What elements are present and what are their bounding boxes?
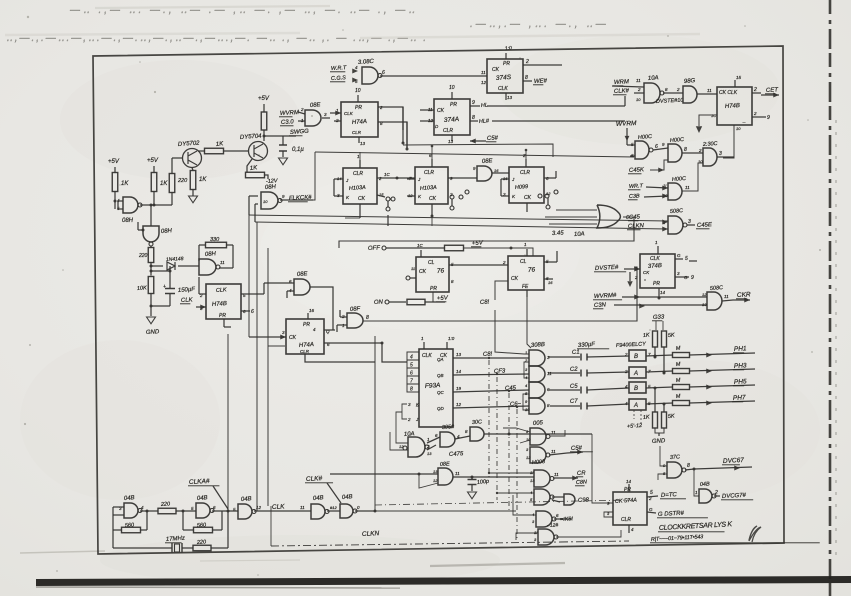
wire 005 out loop	[550, 430, 565, 436]
svg-text:04B: 04B	[313, 495, 324, 502]
svg-text:WVRM: WVRM	[280, 110, 299, 117]
wire CR out	[553, 477, 566, 479]
svg-text:G: G	[677, 253, 681, 258]
svg-text:CK: CK	[524, 195, 532, 201]
margin specks	[27, 16, 29, 18]
pull circles below H103A1	[386, 197, 390, 201]
wire H103A1 left stub	[334, 178, 343, 180]
wire 374A CLR bottom + C5# label	[451, 135, 453, 141]
wire base DY5702	[172, 157, 183, 159]
pin 15 tick above H74B2	[734, 80, 736, 87]
wire 374S out WE#	[523, 80, 532, 82]
svg-text:5: 5	[650, 490, 653, 496]
wire H00C4 out up to 2-30C	[682, 163, 703, 191]
svg-text:F93A: F93A	[425, 382, 441, 390]
pin16 tick above H74A2	[307, 313, 309, 319]
wire QC out	[453, 390, 529, 392]
nand gate 08E (catch)	[438, 468, 453, 485]
wire 37C out to DVC67	[685, 469, 694, 470]
flip-flop H103A box 1	[343, 168, 377, 204]
wire H00C1 out	[653, 148, 668, 150]
svg-text:C8N: C8N	[576, 479, 587, 486]
svg-text:C45K: C45K	[629, 167, 645, 174]
svg-text:CK: CK	[437, 108, 445, 114]
svg-text:220: 220	[160, 501, 172, 508]
wire 08E3 out long right	[453, 476, 534, 478]
resistor 560 osc2	[194, 527, 213, 533]
svg-text:08E: 08E	[482, 158, 494, 165]
long mid bus wire B (to CLKN)	[255, 222, 668, 229]
svg-text:12: 12	[481, 80, 487, 85]
svg-text:2: 2	[676, 87, 680, 92]
svg-text:CLKN: CLKN	[362, 530, 380, 538]
wire 08E out to H099	[492, 172, 509, 174]
svg-text:11: 11	[551, 449, 556, 454]
wire H008 out to C5#	[549, 453, 567, 455]
nand gate 37C	[667, 462, 682, 478]
and gate 308B 4	[529, 398, 545, 414]
wire -12 gate out to 574A clr	[556, 530, 621, 537]
pin tick above 76-2	[526, 249, 528, 256]
wire WVRM to gate	[298, 112, 305, 114]
svg-text:3.08C: 3.08C	[358, 59, 375, 66]
wire arrow ph2	[690, 369, 756, 371]
svg-text:98G: 98G	[684, 78, 696, 85]
down arrow at 374B pin2	[644, 279, 646, 281]
svg-text:CL: CL	[428, 260, 435, 266]
svg-text:C45: C45	[629, 214, 641, 221]
wire 08E3 input from left	[330, 473, 438, 475]
wire ph5 line	[646, 387, 673, 388]
svg-text:WRM: WRM	[614, 79, 629, 86]
wire 08F inputs	[340, 316, 347, 318]
svg-text:04B: 04B	[342, 494, 353, 501]
svg-text:2: 2	[407, 417, 411, 422]
flip-flop 76 box 2	[508, 256, 544, 290]
wire 374B Qbar out	[675, 276, 689, 278]
resistor 5K (phase pullup)	[662, 331, 667, 347]
svg-text:13: 13	[456, 352, 462, 357]
svg-text:CLK#: CLK#	[614, 88, 630, 95]
svg-text:WE#: WE#	[534, 78, 548, 85]
nand gate 5.08C (WRT/CGS)	[362, 67, 378, 84]
resistor out ph7	[673, 401, 690, 406]
svg-text:CLR: CLR	[520, 170, 530, 176]
wire 10A2 outs to 308#	[427, 437, 440, 443]
capacitor 0.1u	[279, 145, 287, 151]
svg-text:CR: CR	[577, 471, 587, 477]
wire H74B2 Qbar	[752, 116, 766, 118]
svg-text:CL: CL	[520, 259, 527, 265]
wire osc2 out to junction	[212, 510, 238, 512]
svg-text:A: A	[633, 403, 638, 409]
ground arrow (10K)	[150, 306, 152, 316]
delay box B1	[629, 350, 646, 361]
svg-text:2: 2	[502, 260, 506, 265]
nor gate 345 10A	[597, 205, 620, 228]
resistor 560 osc1	[122, 527, 141, 533]
wire ph2 line	[646, 371, 673, 372]
svg-text:+: +	[163, 284, 166, 290]
svg-text:16: 16	[309, 308, 315, 313]
wire 574A CK input from 30C line	[592, 434, 613, 503]
drawing frame border	[93, 46, 784, 554]
svg-text:2: 2	[624, 352, 628, 357]
wire 98G out to H74B	[697, 93, 717, 95]
svg-text:6: 6	[251, 309, 254, 315]
wire CLK# pointer	[327, 483, 341, 503]
flip-flop 574A box	[613, 492, 647, 525]
svg-text:11: 11	[455, 471, 460, 476]
svg-text:9: 9	[472, 100, 475, 106]
wire counters feedback verticals	[387, 215, 389, 226]
nand gate (K8)	[536, 511, 552, 527]
capacitor C2	[548, 372, 580, 374]
svg-text:13: 13	[530, 478, 535, 483]
wire collector to 1K-h	[198, 150, 205, 152]
svg-text:+5V: +5V	[472, 240, 484, 247]
delay box B2	[629, 382, 646, 393]
svg-text:G33: G33	[653, 314, 665, 321]
svg-text:PR: PR	[653, 281, 660, 287]
pull circles below H099	[538, 194, 542, 198]
svg-text:ON: ON	[374, 299, 384, 305]
wire 374A Q out HL	[470, 105, 480, 107]
wire H74A2 CK from left vertical	[280, 334, 286, 339]
wire H00C2 out	[682, 152, 703, 154]
svg-text:GND: GND	[652, 438, 666, 445]
svg-text:H099: H099	[515, 184, 529, 191]
wire off to 76-2	[464, 248, 534, 256]
wire 574A Qbar out	[647, 512, 656, 513]
svg-text:08E: 08E	[310, 102, 322, 109]
resistor 5K (lower)	[662, 412, 667, 428]
wire pullups to gnd	[655, 428, 664, 433]
svg-text:8: 8	[525, 75, 528, 81]
nand gate 005	[530, 428, 546, 445]
svg-text:08H: 08H	[122, 218, 134, 224]
bus riser to H099 clr	[525, 150, 527, 159]
nand gate 08H FLKCK driver	[261, 192, 278, 209]
svg-text:005: 005	[533, 420, 544, 427]
ghost text noise top	[6, 5, 609, 44]
svg-text:H00C: H00C	[670, 137, 684, 144]
wire osc3 out	[254, 510, 311, 512]
wire osc1 out	[140, 510, 158, 512]
wire H103A2 left stub	[407, 178, 415, 180]
svg-text:560: 560	[125, 522, 136, 529]
pin tick above H099	[525, 159, 527, 167]
nand gate 04B (dvc)	[699, 489, 712, 503]
nand gate 10A (3in)	[644, 83, 660, 103]
wire 220 to osc2	[176, 510, 196, 512]
nand gate 10A (3-in, reset)	[408, 437, 425, 457]
svg-text:+5V: +5V	[437, 295, 449, 302]
long vertical wire x375 (CLKN riser)	[374, 336, 376, 511]
svg-text:5K: 5K	[668, 333, 675, 339]
resistor pull (ON)	[407, 299, 425, 305]
wire FLKCK riser to bus	[313, 152, 315, 200]
resistor 330 feedback	[206, 242, 227, 248]
svg-text:PR: PR	[450, 102, 457, 108]
wire 374S Q out	[523, 64, 545, 66]
svg-text:H74A: H74A	[299, 342, 314, 349]
pin 1 tick above 374B	[657, 246, 659, 254]
wire 374S pin13 below	[505, 93, 507, 100]
svg-text:08E: 08E	[297, 271, 309, 278]
wire CKR out	[722, 300, 733, 301]
pin 14 tick above 574A	[628, 484, 630, 492]
svg-text:560: 560	[197, 522, 208, 529]
svg-text:H103A: H103A	[349, 185, 367, 192]
svg-text:+5V: +5V	[258, 96, 270, 102]
svg-text:1K: 1K	[643, 415, 650, 421]
svg-text:308B: 308B	[531, 342, 545, 349]
capacitor C1	[548, 356, 580, 358]
svg-text:C3.0: C3.0	[281, 119, 295, 126]
svg-text:C1: C1	[572, 350, 580, 356]
terminal at 76-1 CK	[406, 276, 410, 280]
svg-text:+5V: +5V	[108, 159, 120, 165]
wire -12V	[265, 175, 269, 179]
svg-text:19: 19	[456, 386, 462, 391]
svg-text:PR: PR	[430, 286, 437, 292]
dashed crossing vertical 4	[516, 409, 518, 540]
svg-text:16: 16	[494, 168, 499, 173]
wire QD out	[453, 406, 529, 408]
wire osc4 to osc5	[327, 510, 340, 512]
flip-flop 374S box	[487, 59, 523, 93]
wire H103A1 CK bottom	[359, 204, 361, 213]
wire H74B PR bottom	[223, 319, 225, 327]
wire H74A Q to 374A rail	[378, 107, 403, 130]
and gate 08F	[347, 313, 363, 328]
svg-text:11: 11	[554, 472, 559, 477]
wire 76-2 down to gate column	[527, 297, 531, 348]
svg-text:08H: 08H	[161, 228, 173, 235]
wire H74A2 Qbar to F93A	[324, 343, 407, 362]
nand gate (-12)	[538, 529, 554, 545]
wire 08E2 output to H74A2	[310, 287, 333, 330]
nand gate 08H (osc input)	[123, 197, 138, 213]
svg-text:+5'-12: +5'-12	[627, 423, 643, 430]
svg-text:−12#: −12#	[547, 522, 559, 529]
pull circles below H103A2	[450, 195, 454, 199]
svg-text:0,1µ: 0,1µ	[292, 147, 304, 153]
wire junction to 220	[154, 204, 172, 206]
svg-text:1: 1	[525, 350, 527, 355]
wire arrow ph5	[690, 385, 756, 387]
svg-text:C8!: C8!	[480, 299, 490, 305]
svg-text:PH3: PH3	[734, 362, 747, 370]
svg-text:PR: PR	[219, 313, 226, 319]
resistor 10K	[148, 277, 154, 294]
svg-text:10: 10	[355, 88, 361, 94]
svg-text:C.G.S: C.G.S	[331, 75, 347, 82]
svg-text:10A: 10A	[404, 431, 415, 438]
wire collector node	[263, 135, 266, 138]
wire H74A Qbar	[378, 122, 407, 148]
wire 374B PR pin14 down	[658, 288, 660, 298]
svg-text:1C: 1C	[417, 243, 424, 248]
svg-text:76: 76	[437, 267, 445, 275]
wire 10K node	[150, 263, 152, 276]
wire 37C inputs riser	[660, 446, 667, 466]
wire 76-2 Q out	[544, 261, 557, 263]
wire 574A CLR bottom	[628, 525, 630, 533]
pin tick above H103A1	[359, 160, 361, 168]
nand gate 04B osc4	[311, 504, 325, 519]
svg-text:CLK: CLK	[181, 297, 194, 304]
svg-text:508C: 508C	[670, 208, 684, 215]
wire 76-1 PR bottom to ON net	[433, 292, 445, 302]
svg-text:08E: 08E	[440, 461, 451, 468]
wire 30C out right	[484, 433, 530, 435]
counter F93A box	[419, 349, 453, 427]
nand gate 508C (C45E)	[668, 216, 683, 234]
wire 374B Q out 5	[675, 258, 683, 260]
resistor 220 (pulldown)	[148, 248, 154, 263]
resistor 1K (2nd)	[151, 173, 157, 192]
svg-text:CK: CK	[511, 276, 519, 282]
flip-flop H74B box (CET)	[717, 87, 752, 125]
svg-text:330µF: 330µF	[578, 342, 596, 349]
nand gate 2-30C	[703, 148, 717, 166]
svg-text:10: 10	[525, 407, 530, 412]
flip-flop H103A box 2	[415, 167, 448, 204]
bus riser to H103A2 clr	[431, 146, 433, 159]
svg-text:C2: C2	[570, 367, 579, 373]
svg-text:374S: 374S	[496, 74, 512, 82]
wire 76-2 Qbar out	[544, 278, 553, 280]
wire C45K to H00C2	[650, 160, 668, 170]
svg-text:H74A: H74A	[352, 119, 367, 126]
svg-text:6: 6	[655, 144, 658, 150]
resistor pull (OFF)	[445, 245, 464, 251]
svg-text:2: 2	[624, 369, 628, 374]
wire H099 CK bottom	[526, 203, 528, 212]
svg-text:G: G	[684, 275, 688, 280]
svg-text:374A: 374A	[444, 116, 460, 124]
svg-text:8: 8	[410, 387, 413, 393]
svg-text:WR.T: WR.T	[629, 183, 644, 190]
svg-text:08H: 08H	[205, 251, 217, 258]
svg-text:330: 330	[210, 237, 220, 243]
svg-text:220: 220	[196, 539, 208, 546]
dashed crossing vertical 3	[508, 393, 510, 511]
svg-text:13: 13	[360, 141, 366, 146]
flip-flop H74A (2nd) box	[286, 319, 324, 354]
svg-text:1K: 1K	[199, 177, 207, 183]
svg-text:1K: 1K	[121, 181, 129, 187]
svg-text:B: B	[634, 354, 638, 360]
resistor 1K (emitter)	[190, 171, 196, 190]
svg-text:14: 14	[660, 290, 666, 295]
wire CLKA pointer	[213, 486, 228, 509]
wire osc5 out	[355, 510, 375, 512]
wire 345 out down-left long	[339, 217, 634, 248]
svg-text:1N4148: 1N4148	[166, 256, 184, 263]
long vertical wire x228	[227, 334, 229, 511]
svg-text:=!K8!: =!K8!	[560, 516, 574, 523]
svg-text:CLK: CLK	[272, 503, 286, 511]
svg-text:13: 13	[427, 451, 432, 456]
title signature	[749, 526, 761, 542]
svg-text:15: 15	[736, 75, 742, 80]
wire H74B Qbar	[241, 310, 250, 312]
svg-text:HL#: HL#	[479, 118, 490, 125]
svg-text:CLR: CLR	[443, 128, 453, 134]
svg-text:3: 3	[688, 219, 691, 225]
wire WVRM down arrow	[626, 128, 628, 141]
svg-text:DVSTE#: DVSTE#	[595, 265, 619, 272]
svg-text:12: 12	[433, 478, 438, 483]
pin ticks above F93A	[423, 342, 425, 349]
wire 560-1 loop	[113, 529, 122, 531]
wire x268 top bend	[268, 345, 285, 347]
wire 08H out to resistor junction	[140, 204, 154, 206]
svg-text:OFF: OFF	[368, 245, 381, 252]
svg-text:QC: QC	[437, 390, 445, 395]
svg-text:WVRM: WVRM	[616, 120, 638, 128]
svg-text:PR: PR	[355, 105, 362, 111]
svg-text:PR: PR	[624, 487, 631, 493]
svg-text:508C: 508C	[710, 285, 724, 292]
svg-text:H74B: H74B	[725, 103, 740, 110]
and gate 08E (2nd)	[294, 279, 310, 295]
svg-text:CK: CK	[289, 335, 297, 341]
svg-text:CLK: CLK	[344, 111, 354, 116]
flip-flop H74B box	[206, 284, 241, 319]
svg-text:C3B: C3B	[629, 193, 640, 200]
svg-text:8: 8	[472, 115, 475, 121]
wire 76-2 bottom pin	[526, 290, 528, 297]
nand gate 04B osc1	[124, 503, 138, 518]
svg-text:10: 10	[449, 85, 455, 91]
nand gate 308# (mid)	[440, 432, 455, 447]
wire emitter to 1K	[192, 168, 193, 171]
svg-text:11: 11	[220, 260, 225, 265]
svg-text:CLR: CLR	[621, 517, 631, 523]
svg-text:C45E: C45E	[697, 222, 713, 229]
long vertical wire x249	[248, 215, 250, 337]
svg-text:PH7: PH7	[733, 394, 746, 402]
wire gate5 inputs	[662, 219, 668, 224]
nand gate 30C	[470, 427, 484, 441]
svg-text:13: 13	[507, 95, 513, 100]
wire branch to 04B gate	[694, 469, 699, 496]
and gate 08E (counter)	[477, 166, 492, 181]
pin tick above H103A2	[431, 159, 433, 167]
wire pullups to phase lines	[654, 347, 656, 357]
svg-text:H103A: H103A	[420, 185, 438, 192]
svg-text:B: B	[634, 386, 638, 392]
svg-text:W.R.T: W.R.T	[331, 65, 347, 72]
flip-flop H099 box	[509, 167, 544, 203]
svg-text:CLR: CLR	[300, 349, 310, 354]
svg-text:1K: 1K	[643, 333, 650, 339]
svg-text:CLK: CLK	[498, 86, 508, 92]
svg-text:220: 220	[177, 178, 188, 184]
capacitor C7	[550, 405, 580, 407]
svg-text:CET: CET	[766, 87, 780, 94]
wire gnd bottom	[150, 294, 152, 307]
svg-text:30C: 30C	[472, 419, 483, 426]
svg-text:QB: QB	[437, 373, 444, 378]
svg-text:+5V: +5V	[147, 158, 159, 164]
svg-text:A: A	[633, 371, 638, 377]
resistor 220 osc	[158, 508, 176, 514]
